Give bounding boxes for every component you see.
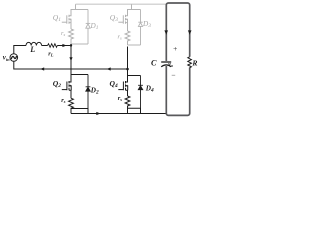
svg-text:D3: D3 bbox=[142, 20, 151, 29]
wire: leg1 top stub bbox=[71, 9, 89, 11]
source v_in bbox=[10, 54, 18, 62]
wire node B vertical bbox=[127, 47, 129, 76]
resistor r_s (leg1 bottom) bbox=[69, 98, 74, 113]
arrow on return wire (left) bbox=[40, 67, 44, 70]
transistor Q2 bbox=[62, 75, 71, 99]
arrow down on capacitor branch bbox=[164, 30, 168, 34]
diode D2 bbox=[86, 75, 91, 109]
inductor L bbox=[26, 42, 42, 45]
transistor Q4 bbox=[118, 76, 127, 97]
wire with arrow into node A bbox=[57, 45, 70, 47]
svg-text:D4: D4 bbox=[145, 85, 154, 94]
wire: leg1 bottom stub bbox=[71, 43, 88, 45]
wire source top bbox=[14, 46, 26, 54]
svg-text:C: C bbox=[151, 58, 157, 67]
wire: leg2 top stub bbox=[127, 9, 141, 11]
top rail gray bbox=[76, 3, 167, 5]
svg-text:Q4: Q4 bbox=[110, 79, 118, 89]
svg-text:rs: rs bbox=[118, 95, 123, 102]
wire node A down with arrow bbox=[70, 44, 72, 75]
wire: leg1 bottom stub to rail bbox=[71, 109, 88, 114]
node A dot bbox=[70, 44, 72, 46]
svg-text:rL: rL bbox=[48, 51, 54, 58]
svg-text:rs: rs bbox=[118, 34, 123, 41]
transistor Q3 bbox=[118, 10, 127, 32]
resistor R bbox=[188, 57, 192, 68]
wire source bottom / return bbox=[14, 61, 128, 69]
arrow on bottom rail bbox=[96, 112, 100, 115]
transistor Q1 bbox=[62, 10, 71, 30]
arrow on return wire (right) bbox=[107, 67, 111, 70]
svg-text:rs: rs bbox=[61, 97, 65, 104]
diode D3 bbox=[138, 10, 142, 46]
svg-text:D2: D2 bbox=[90, 87, 99, 96]
svg-text:Q1: Q1 bbox=[53, 13, 61, 23]
node B dot bbox=[126, 68, 129, 71]
svg-text:+: + bbox=[173, 44, 178, 53]
wire: leg1 bottom drain stub bbox=[71, 74, 88, 76]
resistor r_s (leg2 top) bbox=[125, 31, 130, 45]
wire bbox=[42, 45, 48, 47]
bottom rail bbox=[71, 113, 167, 115]
svg-text:Q3: Q3 bbox=[110, 13, 118, 23]
resistor r_s (leg2 bottom) bbox=[125, 96, 130, 114]
svg-text:vo: vo bbox=[168, 62, 173, 68]
resistor r_L bbox=[48, 44, 58, 48]
wire: leg2 bottom stub bbox=[128, 44, 141, 46]
wire: leg1 top drop bbox=[75, 4, 77, 9]
svg-text:D1: D1 bbox=[90, 22, 99, 31]
wire: leg2 top drop bbox=[131, 4, 133, 9]
svg-text:−: − bbox=[171, 70, 176, 79]
output loop frame bbox=[166, 3, 189, 115]
svg-text:L: L bbox=[29, 45, 35, 54]
wire: leg2 bottom drain stub bbox=[128, 75, 141, 77]
diode D4 bbox=[138, 76, 143, 109]
svg-text:R: R bbox=[191, 58, 197, 67]
diode D1 bbox=[86, 10, 91, 45]
resistor r_s (leg1 top) bbox=[69, 29, 74, 44]
svg-text:vin: vin bbox=[3, 54, 10, 62]
svg-text:rs: rs bbox=[61, 30, 66, 37]
capacitor C bbox=[161, 61, 171, 63]
wire: leg2 bottom stub to rail bbox=[128, 108, 141, 113]
svg-text:Q2: Q2 bbox=[53, 79, 61, 89]
arrow down on load branch bbox=[188, 30, 192, 34]
